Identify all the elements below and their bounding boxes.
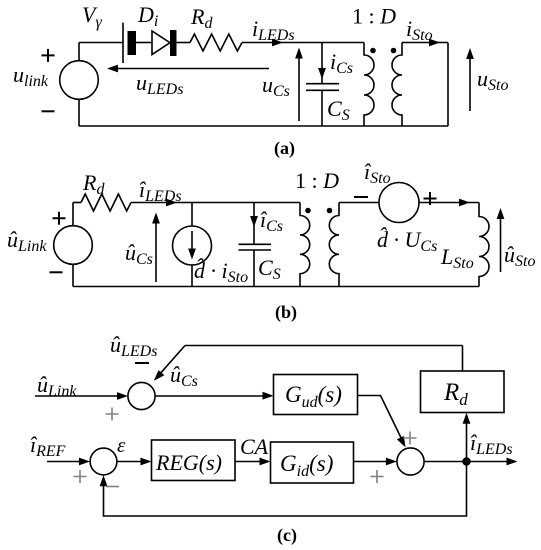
wire feedback top horizontal [185,345,463,347]
plus sign at REG sum [74,470,87,483]
wire top rail left segment [79,42,123,44]
wire secondary right vertical [447,43,449,127]
voltage arrow u_LEDs [110,68,269,70]
transformer primary winding (b) [300,203,310,287]
block G_id [271,442,354,483]
wire top rail to resistor (b) [73,202,81,204]
voltage source u_Link hat [54,226,93,265]
wire node up into Rd [466,416,468,462]
transformer primary dot (b) [305,208,311,214]
wire source bottom lead [78,99,80,126]
transformer primary winding [364,43,374,127]
transformer secondary winding (b) [329,203,339,287]
wire bottom rail (b) [73,286,479,288]
wire sum to REG [117,461,148,463]
block R_d [421,371,505,413]
minus sign of u_LEDs [135,362,149,364]
plus sign left of sum2 [371,470,384,483]
current arrowhead into inductor [459,199,470,207]
svg-text:1 : D: 1 : D [352,4,396,29]
plus sign of u_link [42,49,55,62]
wire source bottom lead (b) [72,264,74,286]
wire u_Link input [35,395,125,397]
capacitor C_S plates [306,84,339,91]
current source inner arrow [191,231,193,255]
transformer primary dot [370,48,376,54]
voltage arrow u_Cs hat (b) [155,216,157,282]
plus sign at sum1 [106,408,119,421]
capacitor branch upper wire [321,43,323,84]
minus sign of u_Link hat [50,271,63,273]
block G_ud [274,375,358,415]
diode D_i cathode bar [170,30,177,56]
svg-text:(c): (c) [277,525,297,546]
voltage arrow u_Cs [298,51,300,121]
battery V_gamma short thick plate [128,31,137,55]
current arrow i_Sto [429,39,440,47]
voltage arrow u_Sto hat (b) [500,212,502,272]
diode D_i triangle [152,31,170,55]
wire Gid to sum2 [354,461,394,463]
current source branch top wire [191,203,193,227]
minus sign of u_link [42,110,55,112]
voltage source u_link [60,61,99,100]
plus sign above sum2 [404,432,417,445]
battery V_gamma long plate [122,23,124,64]
svg-text:(a): (a) [274,138,295,159]
wire diode to resistor [177,42,191,44]
svg-text:CA: CA [240,434,269,459]
transformer secondary dot [391,48,397,54]
inductor L_Sto winding [479,203,489,287]
minus sign of d*U_Cs [354,196,368,198]
wire battery to diode [136,42,152,44]
wire sum1 to Gud [155,395,270,397]
wire source top lead (b) [72,203,74,226]
svg-text:1 : D: 1 : D [295,168,339,193]
wire Gud diagonal to sum2 [358,396,404,444]
block REG [152,440,236,481]
wire output i_LEDs [424,461,514,463]
resistor R_d zigzag [190,34,242,51]
current arrow i_LEDs [272,39,283,47]
controlled source d*U_Cs circle [379,183,419,223]
wire source top lead [78,43,80,61]
capacitor branch lower wire (b) [253,250,255,287]
voltage arrow u_Sto [469,52,471,111]
wire secondary to source circle [339,202,379,204]
plus sign of d*U_Cs [424,192,437,205]
current arrow i_Cs hat (b) [250,216,258,227]
capacitor branch lower wire [321,90,323,126]
transformer secondary dot (b) [327,208,333,214]
svg-text:(b): (b) [275,302,297,323]
current source branch bottom wire [191,265,193,287]
wire i_REF input [47,461,87,463]
minus sign at REG sum [106,486,119,488]
current arrow i_LEDs hat (b) [166,199,177,207]
svg-text:REG(s): REG(s) [155,450,222,475]
wire secondary top [402,42,448,44]
wire top rail (b) [131,202,300,204]
current arrow i_Cs [318,68,326,79]
wire feedback bottom [104,462,467,517]
capacitor C_S plates (b) [239,244,272,250]
plus sign of u_Link hat [53,212,66,225]
wire feedback top vertical into Rd [462,346,464,372]
resistor R_d zigzag (b) [81,194,131,211]
svg-text:ε: ε [117,433,126,457]
capacitor branch upper wire (b) [253,203,255,244]
current source d*i_Sto circle [173,226,212,265]
summing node 2 [397,448,424,475]
wire diagonal into sum1 [156,346,185,379]
node junction dot [462,457,470,465]
transformer secondary winding [392,43,402,127]
summing node 1 [128,382,155,409]
wire bottom rail [79,125,448,127]
wire top rail right segment [242,42,364,44]
wire source to inductor [419,202,479,204]
summing node REG row [90,448,117,475]
wire REG to Gid [235,461,267,463]
